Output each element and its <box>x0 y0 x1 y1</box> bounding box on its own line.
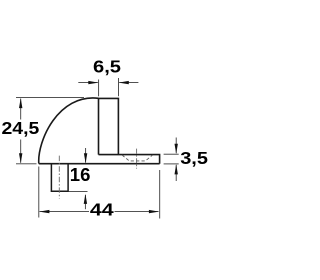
dimension 3,5: lower arrowhead (points up) <box>175 164 178 174</box>
dimension 3,5: bottom extension line <box>164 163 179 165</box>
pin centerline (dash-dot) <box>58 156 60 199</box>
dowel pin below base <box>51 164 68 191</box>
svg-text:16: 16 <box>70 164 91 185</box>
dimension 3,5: lower dimension line segment <box>175 165 177 181</box>
dimension 16: upper arrowhead (points down at base bottom) <box>84 153 87 163</box>
dimension 24,5: upper arrowhead (points up) <box>19 98 22 108</box>
dimension 16: lower arrowhead (points up at pin bottom) <box>84 194 87 204</box>
countersink hidden outline (dashed trapezoid in base) <box>122 155 153 161</box>
dimension 3,5: upper dimension line segment <box>175 138 177 154</box>
dimension 44: left arrowhead (points left) <box>39 210 49 213</box>
dimension 6,5: left extension line <box>98 80 100 97</box>
dimension 24,5: top extension line <box>16 96 84 98</box>
dimension 16: pin-bottom extension line <box>69 191 88 193</box>
dimension 44: left extension line <box>38 167 40 218</box>
hole centerline (dash-dot) <box>136 149 138 169</box>
dimension 24,5: upper dimension line segment <box>20 99 22 120</box>
stop post (vertical tab, 6.5 wide) <box>99 98 119 154</box>
dimension 6,5: left dimension line <box>78 82 98 84</box>
svg-text:44: 44 <box>90 200 114 220</box>
svg-text:24,5: 24,5 <box>2 118 40 138</box>
dimension 3,5: top extension line <box>164 153 179 155</box>
dimension 6,5: right extension line <box>118 78 120 96</box>
svg-text:3,5: 3,5 <box>180 149 208 169</box>
dome arc (quarter-round stop body outline) <box>39 98 99 164</box>
dimension 44: right extension line <box>159 170 161 219</box>
dimension 6,5: right dimension line <box>119 82 138 84</box>
dimension 44: left dimension line segment <box>40 211 90 213</box>
dimension 24,5: bottom extension line <box>16 163 37 165</box>
dimension 44: right arrowhead (points right) <box>149 210 159 213</box>
dimension 24,5: lower dimension line segment <box>20 140 22 163</box>
dimension 6,5: right arrowhead (points left) <box>119 81 129 84</box>
base plate outline <box>39 155 160 164</box>
dimension 44: right dimension line segment <box>115 211 159 213</box>
dimension 6,5: left arrowhead (points right) <box>88 81 98 84</box>
dimension 24,5: lower arrowhead (points down) <box>19 153 22 163</box>
svg-text:6,5: 6,5 <box>93 58 121 78</box>
dimension 3,5: upper arrowhead (points down) <box>175 144 178 154</box>
dimension 16: lower dimension line segment <box>84 195 86 209</box>
dimension 16: upper dimension line segment <box>85 148 87 163</box>
